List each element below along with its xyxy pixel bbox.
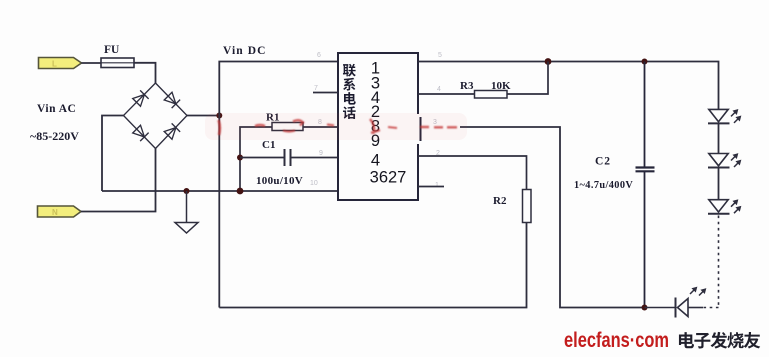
node junction R3 top xyxy=(545,58,552,65)
svg-text:7: 7 xyxy=(314,85,318,92)
resistor R2 xyxy=(523,190,532,223)
resistor R1 xyxy=(272,123,303,131)
svg-text:4: 4 xyxy=(371,152,380,170)
wire R3 to top rail xyxy=(507,62,548,95)
wire rail to C1 xyxy=(240,157,284,159)
LED D5 xyxy=(708,109,730,123)
wire dashed LED3 down xyxy=(718,216,720,308)
wire R1/C1 left rail xyxy=(240,127,272,191)
svg-text:R3: R3 xyxy=(460,80,474,92)
wire IC pin 2 to R2 xyxy=(418,156,527,190)
svg-text:C1: C1 xyxy=(262,139,275,151)
svg-text:9: 9 xyxy=(319,150,323,157)
op-amp U1 IC box 3627 xyxy=(338,53,421,200)
resistor R3 xyxy=(475,91,508,99)
LED D6 xyxy=(708,154,730,168)
connector N xyxy=(38,206,82,217)
LED D7 xyxy=(708,200,730,214)
wire LED1-LED2 xyxy=(718,124,720,154)
wire C1 to IC pin 9 xyxy=(291,157,338,159)
LED D8 (horizontal, bottom) xyxy=(645,298,704,318)
svg-text:L: L xyxy=(52,60,57,69)
wire R2 to bottom rail and left bottom rail xyxy=(219,223,526,308)
wire IC pin 3 branch xyxy=(460,127,645,308)
wire top rail right xyxy=(418,62,719,110)
diode D3 (bridge) xyxy=(132,125,148,141)
svg-text:~85-220V: ~85-220V xyxy=(30,129,79,143)
watermark 电子发烧友 xyxy=(679,332,760,349)
svg-text:10: 10 xyxy=(310,180,318,187)
wire R1 to IC pin 8 xyxy=(303,126,338,128)
svg-text:R2: R2 xyxy=(493,195,507,207)
svg-text:5: 5 xyxy=(438,52,442,59)
IC digits 1342894 3627 xyxy=(370,60,407,187)
wire N to bridge bottom xyxy=(81,149,156,212)
wire pin 1 stub xyxy=(418,186,444,188)
svg-text:3627: 3627 xyxy=(370,169,407,187)
IC text 联系电话 xyxy=(343,64,356,119)
wire main left vertical xyxy=(219,62,338,308)
LED D8 arrows xyxy=(690,288,705,296)
capacitor C2 xyxy=(636,62,655,308)
node junction C1 top tap xyxy=(237,155,243,161)
diode D1 (bridge) xyxy=(132,90,148,106)
svg-text:elecfans·com: elecfans·com xyxy=(564,329,669,352)
capacitor C1 xyxy=(285,149,291,166)
svg-text:10K: 10K xyxy=(491,80,511,92)
svg-text:C2: C2 xyxy=(595,156,611,168)
diode D4 (bridge) xyxy=(164,123,180,139)
diode D2 (bridge) xyxy=(164,92,180,108)
svg-text:1~4.7u/400V: 1~4.7u/400V xyxy=(574,180,633,191)
ground symbol xyxy=(175,191,198,233)
svg-text:4: 4 xyxy=(437,86,441,93)
wire L to fuse xyxy=(82,62,102,64)
node junction C2 bottom xyxy=(642,305,648,311)
watermark faint red haze (center band) xyxy=(205,113,467,140)
node junction bridge/main vertical xyxy=(216,113,222,119)
wire pin 7 stub xyxy=(313,92,338,94)
wire bridge right corner to main vertical xyxy=(187,115,219,117)
svg-text:FU: FU xyxy=(104,44,120,56)
svg-text:100u/10V: 100u/10V xyxy=(256,175,303,187)
bridge rectifier diamond wires xyxy=(124,83,188,149)
wire IC pin 4 to R3 xyxy=(418,93,475,95)
svg-text:Vin AC: Vin AC xyxy=(37,103,76,115)
connector L xyxy=(39,58,82,69)
svg-text:6: 6 xyxy=(317,52,321,59)
wire fuse to bridge top xyxy=(134,63,156,83)
watermark red scribbles (center) xyxy=(219,119,458,135)
wire dashed corner to LED D8 xyxy=(703,307,719,309)
node junction C2 top xyxy=(642,59,648,65)
node junction rail/ground wire xyxy=(237,188,244,195)
wire LED2-LED3 xyxy=(718,168,720,200)
fuse FU xyxy=(101,58,134,68)
svg-text:1: 1 xyxy=(435,182,439,189)
wire ground rail y=191 to IC pin 10 xyxy=(102,190,338,192)
svg-text:Vin DC: Vin DC xyxy=(223,45,267,57)
wire bridge left corner to ground rail xyxy=(102,116,124,192)
svg-text:N: N xyxy=(52,208,58,217)
node junction at ground tap xyxy=(184,188,190,194)
